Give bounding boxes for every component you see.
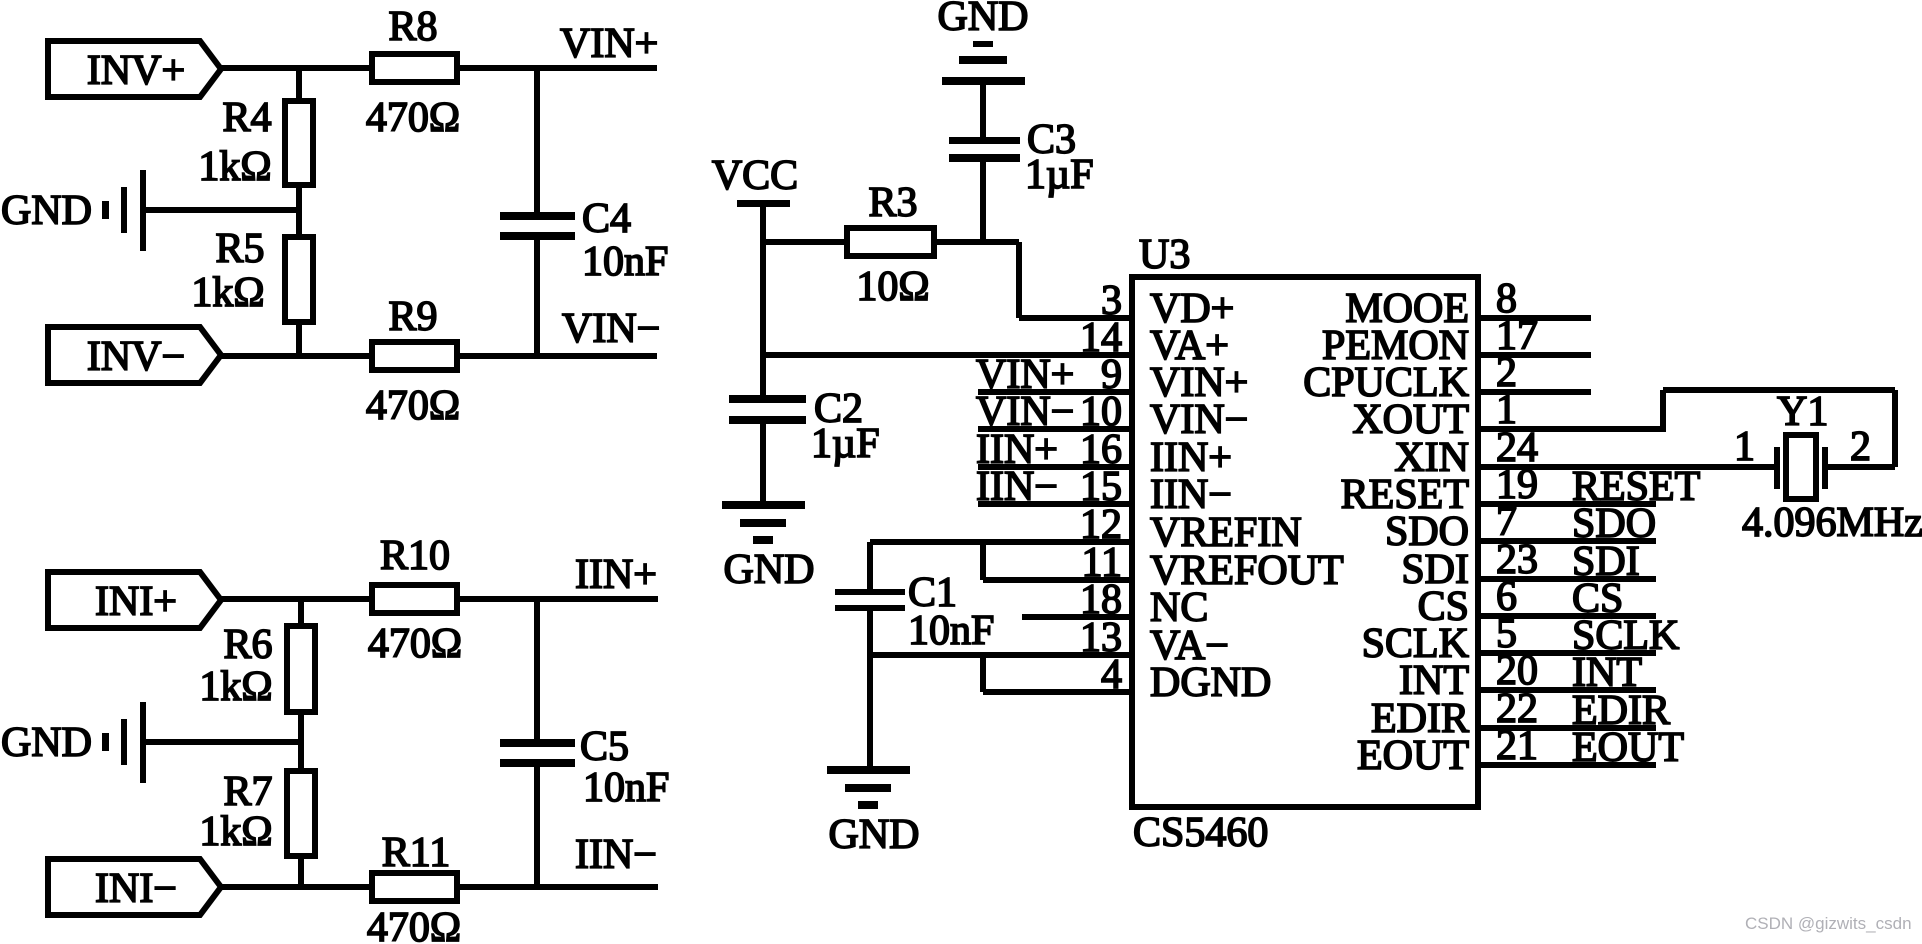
svg-text:4.096MHz: 4.096MHz [1742,500,1922,546]
svg-text:R9: R9 [388,294,437,340]
svg-text:10nF: 10nF [908,608,994,654]
svg-text:1kΩ: 1kΩ [198,144,271,190]
svg-text:IIN−: IIN− [976,464,1058,510]
svg-text:GND: GND [724,547,815,593]
svg-text:1kΩ: 1kΩ [199,664,272,710]
svg-text:INV−: INV− [87,334,185,380]
svg-text:21: 21 [1496,723,1538,769]
svg-text:INI−: INI− [95,866,177,912]
svg-text:R10: R10 [380,533,450,579]
svg-text:R11: R11 [382,830,450,876]
svg-text:4: 4 [1101,652,1122,698]
svg-text:C5: C5 [580,724,629,770]
svg-text:1kΩ: 1kΩ [191,270,264,316]
svg-text:C4: C4 [582,196,631,242]
svg-text:VCC: VCC [712,153,798,199]
svg-text:CS5460: CS5460 [1133,810,1268,856]
svg-text:IIN−: IIN− [575,832,657,878]
svg-text:GND: GND [829,812,920,858]
svg-text:CSDN @gizwits_csdn: CSDN @gizwits_csdn [1745,914,1912,933]
svg-text:GND: GND [1,720,92,766]
svg-text:470Ω: 470Ω [366,383,460,429]
svg-text:VIN−: VIN− [562,306,660,352]
svg-text:10nF: 10nF [582,239,668,285]
svg-text:R3: R3 [868,180,917,226]
svg-text:INV+: INV+ [87,48,185,94]
svg-text:470Ω: 470Ω [367,905,461,944]
svg-text:GND: GND [938,0,1029,40]
svg-text:1: 1 [1734,424,1755,470]
svg-text:U3: U3 [1139,232,1190,278]
svg-text:EOUT: EOUT [1357,733,1469,779]
svg-text:1kΩ: 1kΩ [199,809,272,855]
svg-text:R8: R8 [388,4,437,50]
svg-text:1µF: 1µF [1025,152,1094,198]
svg-text:470Ω: 470Ω [368,621,462,667]
svg-text:R4: R4 [222,95,271,141]
svg-text:DGND: DGND [1150,660,1271,706]
svg-text:10Ω: 10Ω [856,264,929,310]
svg-text:IIN+: IIN+ [575,552,657,598]
svg-text:R5: R5 [215,226,264,272]
svg-text:EOUT: EOUT [1572,725,1684,771]
svg-text:R6: R6 [223,622,272,668]
svg-text:VIN+: VIN+ [560,21,658,67]
svg-text:470Ω: 470Ω [366,95,460,141]
svg-text:INI+: INI+ [95,579,177,625]
svg-text:1µF: 1µF [811,421,880,467]
svg-text:2: 2 [1850,424,1871,470]
svg-text:Y1: Y1 [1777,389,1828,435]
svg-text:10nF: 10nF [583,765,669,811]
svg-text:GND: GND [1,188,92,234]
